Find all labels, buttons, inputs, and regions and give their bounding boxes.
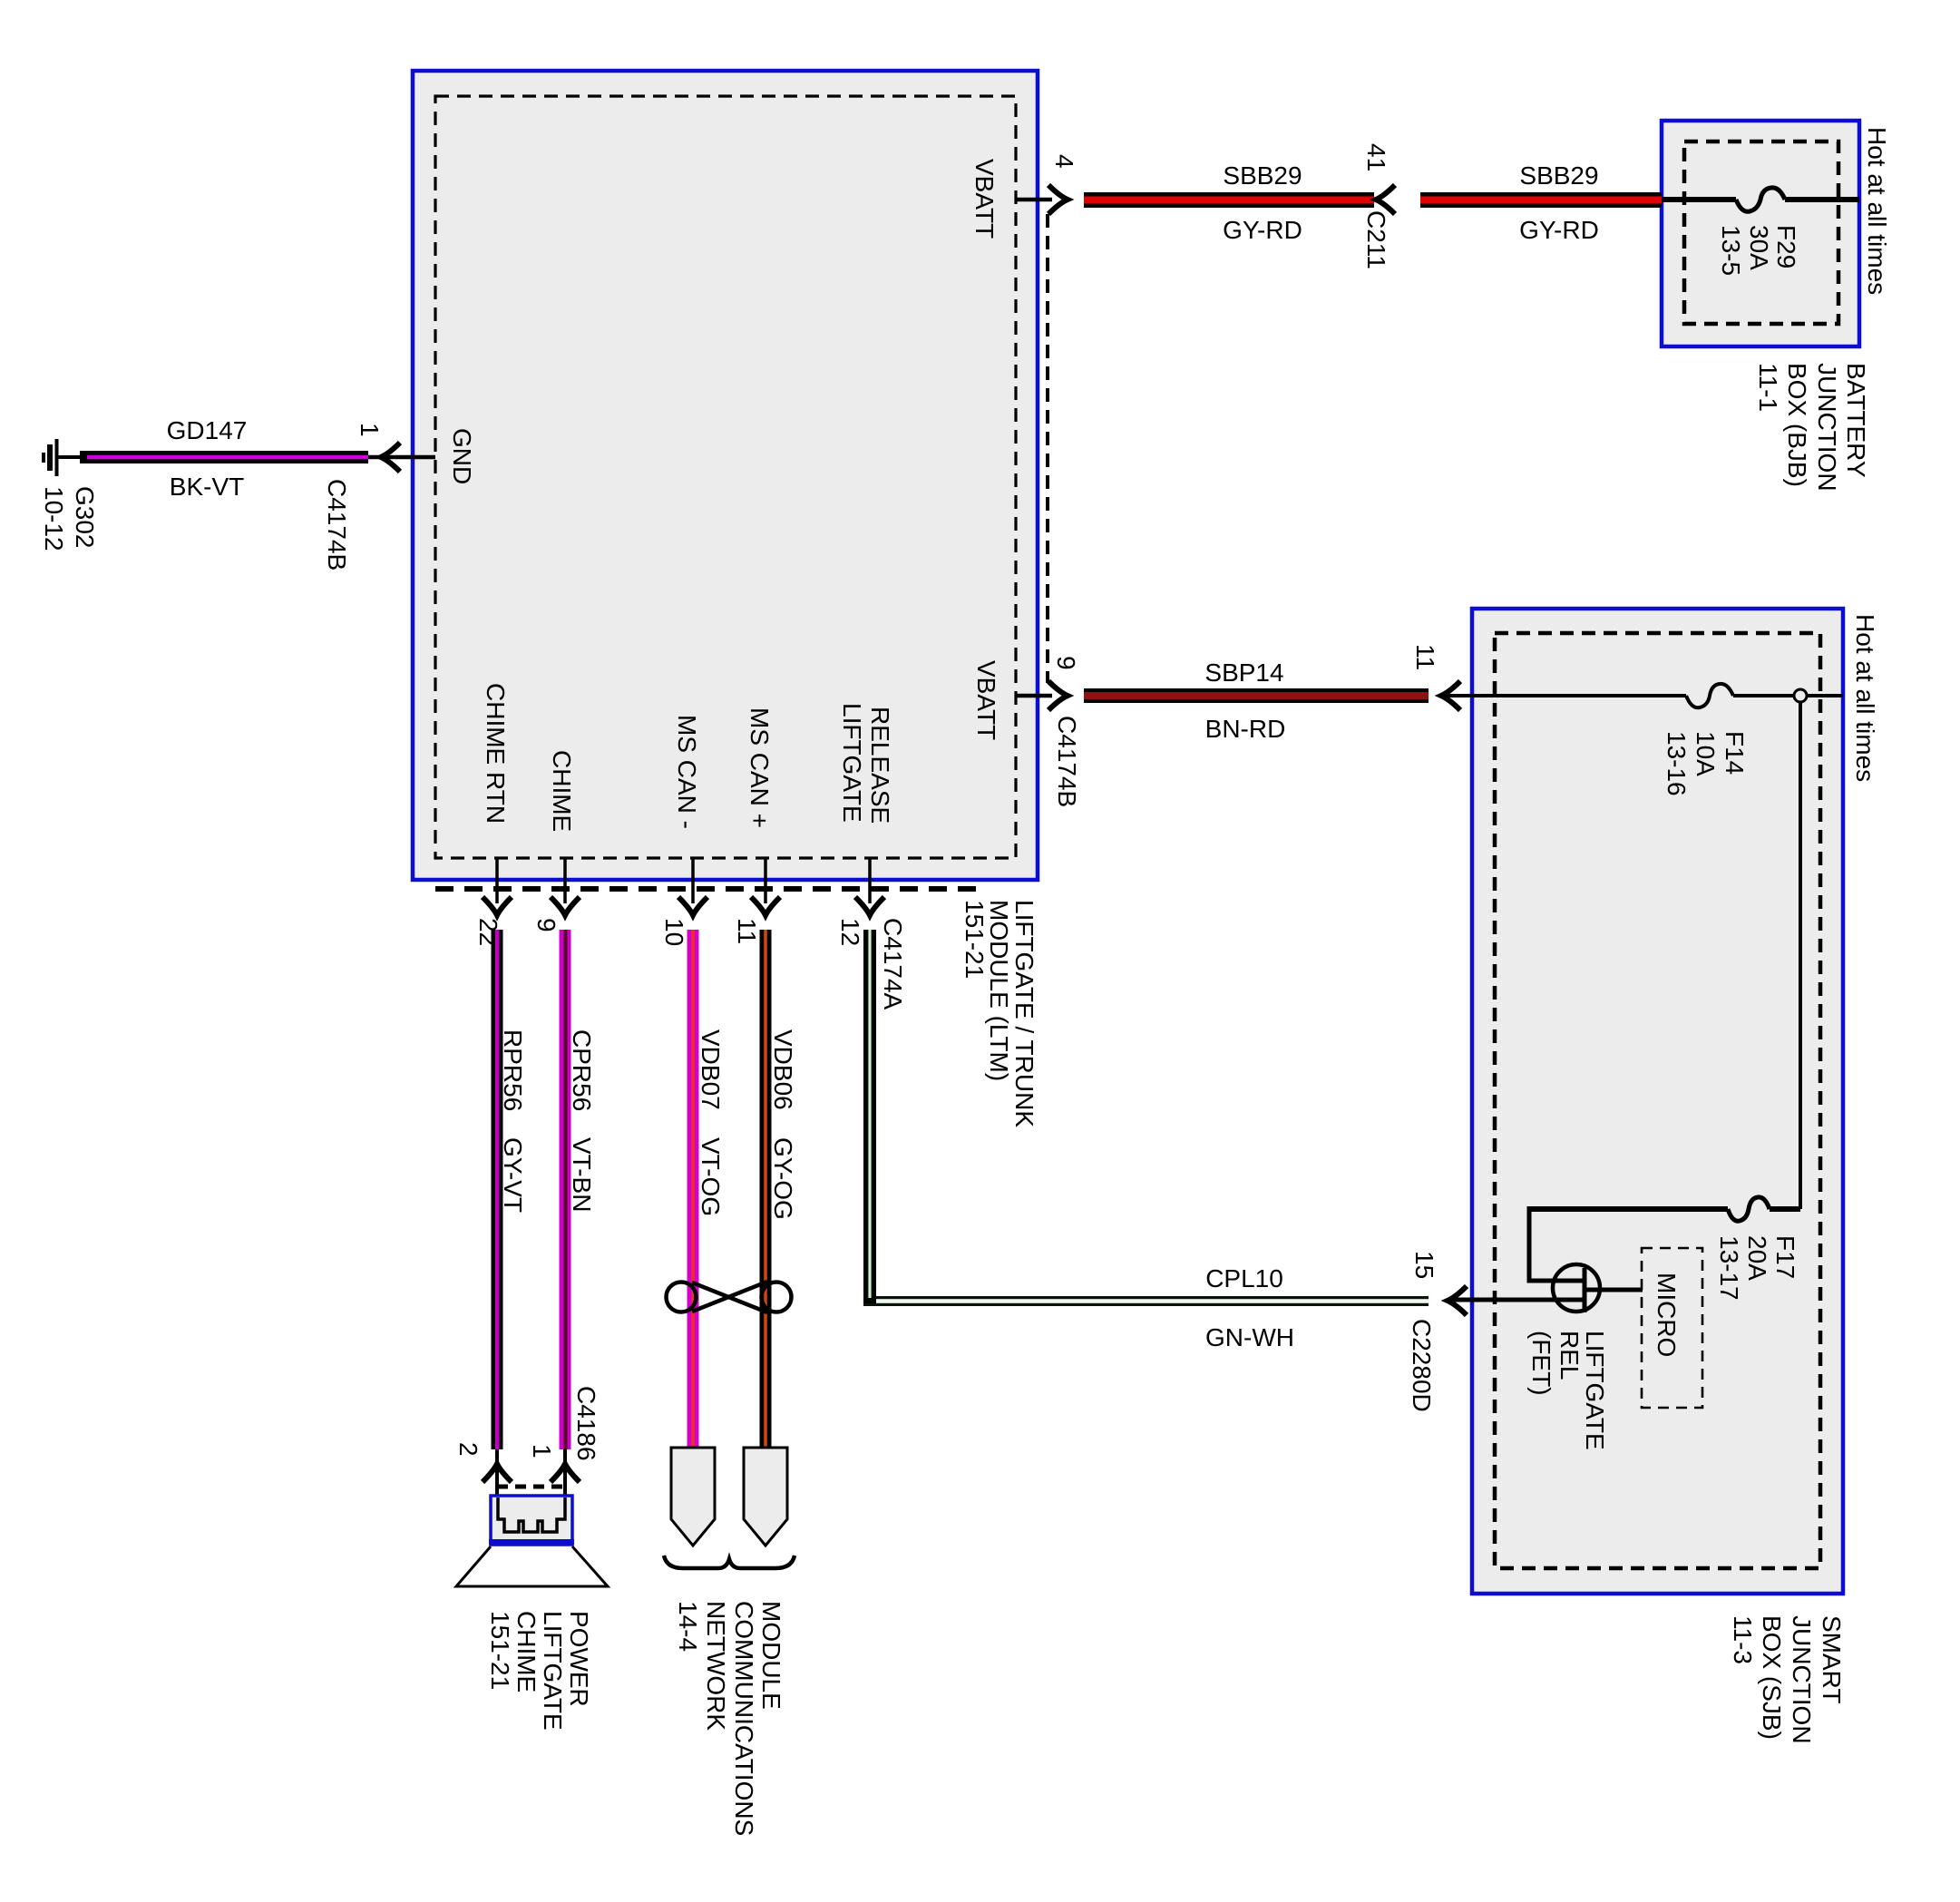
svg-text:1: 1 (356, 423, 384, 437)
pin stub LIFTGATE RELEASE (868, 858, 872, 903)
arrow at VBATT pin 9 (points right) (1048, 681, 1068, 710)
svg-text:CHIME RTN: CHIME RTN (482, 683, 510, 824)
pin label LIFTGATE RELEASE (838, 703, 894, 824)
svg-text:F17: F17 (1771, 1235, 1799, 1279)
svg-text:RELEASE: RELEASE (866, 707, 894, 824)
fuse F14 10A (1686, 684, 1733, 707)
wire CPL10 vertical (black/green) (863, 930, 876, 1303)
svg-text:GD147: GD147 (167, 416, 248, 444)
svg-text:F29: F29 (1772, 225, 1800, 268)
wire GD147 BK-VT (black/violet) (80, 451, 368, 463)
SJB inner dashed boundary (1495, 633, 1820, 1568)
svg-text:11: 11 (733, 918, 761, 944)
MICRO dashed box (1642, 1248, 1702, 1408)
SJB internal feed line (1444, 694, 1686, 697)
wire SBP14 BN-RD (1084, 688, 1429, 703)
svg-text:RPR56: RPR56 (499, 1029, 527, 1111)
svg-text:MS CAN +: MS CAN + (746, 707, 774, 828)
svg-text:C4174A: C4174A (879, 918, 907, 1010)
fuse label F14 10A 13-16 (1663, 731, 1749, 796)
svg-text:151-21: 151-21 (960, 900, 989, 979)
svg-text:11-1: 11-1 (1754, 363, 1782, 412)
svg-text:GY-RD: GY-RD (1519, 216, 1599, 244)
svg-text:JUNCTION: JUNCTION (1813, 363, 1841, 492)
chime wire tails (495, 1449, 499, 1520)
pin stub CHIME (563, 858, 567, 903)
wire SBB29 GY-RD segment 1 (1084, 192, 1374, 208)
arrow at C211 (points left) (1376, 185, 1395, 214)
chime label POWER LIFTGATE CHIME 151-21 (486, 1611, 593, 1731)
svg-text:CHIME: CHIME (548, 750, 576, 832)
wire VDB06 GY-OG vertical (760, 930, 772, 1448)
svg-text:CHIME: CHIME (512, 1611, 541, 1692)
svg-text:41: 41 (1362, 143, 1390, 171)
fuse F17 20A (1728, 1197, 1770, 1221)
brace under pentagons (664, 1556, 795, 1568)
BJB line from fuse to edge (1785, 197, 1859, 202)
svg-text:VT-BN: VT-BN (568, 1137, 596, 1212)
svg-text:VT-OG: VT-OG (697, 1137, 725, 1216)
svg-text:BN-RD: BN-RD (1205, 715, 1286, 743)
svg-text:COMMUNICATIONS: COMMUNICATIONS (730, 1601, 758, 1836)
svg-text:151-21: 151-21 (486, 1611, 514, 1690)
svg-text:NETWORK: NETWORK (702, 1601, 730, 1731)
F17 link to vertical (1770, 1206, 1800, 1212)
arrow pin 10 (points down) (678, 897, 707, 915)
off-page connector pentagon (MS CAN -) (671, 1448, 715, 1546)
BJB internal feed line (1662, 197, 1736, 202)
svg-text:30A: 30A (1745, 225, 1773, 270)
svg-text:C4174B: C4174B (323, 479, 351, 571)
VBATT pin 9 stub (1016, 694, 1052, 698)
svg-text:LIFTGATE: LIFTGATE (1581, 1331, 1609, 1450)
svg-text:VBATT: VBATT (972, 660, 1000, 740)
arrow pin 9 (points down) (551, 897, 580, 915)
svg-text:VDB07: VDB07 (697, 1029, 725, 1110)
svg-text:13-5: 13-5 (1717, 225, 1745, 276)
svg-text:Hot at all times: Hot at all times (1851, 614, 1879, 782)
arrow at GND pin (points left) (381, 443, 400, 472)
wire VDB07 VT-OG vertical (687, 930, 699, 1448)
FET driver circle LIFTGATE REL (1553, 1264, 1600, 1312)
svg-text:4: 4 (1050, 154, 1078, 169)
svg-text:GND: GND (448, 428, 476, 484)
box label SMART JUNCTION BOX (SJB) 11-3 (1729, 1615, 1846, 1744)
svg-text:2: 2 (454, 1442, 483, 1457)
junction node (1794, 689, 1807, 702)
svg-text:SBB29: SBB29 (1223, 161, 1302, 190)
svg-text:10A: 10A (1692, 731, 1720, 776)
arrow at VBATT pin 4 (points right) (1048, 185, 1068, 214)
svg-text:GY-RD: GY-RD (1223, 216, 1302, 244)
arrow pin 22 (points down) (483, 897, 512, 915)
fuse label F29 30A 13-5 (1717, 225, 1800, 276)
arrow at SJB pin 15 (points left) (1448, 1286, 1467, 1315)
pin stub MS CAN + (764, 858, 767, 903)
svg-text:LIFTGATE: LIFTGATE (838, 703, 866, 823)
fuse F29 30A (1736, 188, 1785, 211)
svg-text:GY-OG: GY-OG (769, 1137, 797, 1220)
arrow chime pin 1 (points up) (551, 1464, 580, 1482)
FET label LIFTGATE REL (FET) (1527, 1331, 1609, 1450)
arrow at SJB pin 11 (points left) (1441, 681, 1460, 710)
dashed link between VBATT pins (1046, 214, 1049, 683)
svg-text:10-12: 10-12 (40, 486, 68, 551)
ground label G302 10-12 (40, 486, 99, 551)
svg-text:MS CAN -: MS CAN - (673, 715, 701, 829)
svg-text:BATTERY: BATTERY (1842, 363, 1870, 478)
svg-text:12: 12 (836, 918, 864, 946)
svg-text:MODULE: MODULE (757, 1601, 785, 1710)
VBATT pin 4 stub (1016, 198, 1052, 202)
svg-text:CPL10: CPL10 (1205, 1264, 1283, 1292)
svg-text:GN-WH: GN-WH (1205, 1323, 1294, 1351)
smart junction box SJB (1472, 609, 1843, 1594)
battery junction box BJB (1662, 121, 1859, 346)
svg-text:Hot at all times: Hot at all times (1863, 127, 1891, 295)
off-page connector pentagon (MS CAN +) (744, 1448, 787, 1546)
pin stub MS CAN - (691, 858, 695, 903)
wire CPR56 VT-BN vertical (560, 930, 571, 1449)
svg-text:20A: 20A (1743, 1235, 1771, 1281)
svg-text:(FET): (FET) (1527, 1331, 1555, 1396)
svg-text:9: 9 (1052, 656, 1080, 670)
svg-text:11-3: 11-3 (1729, 1615, 1757, 1664)
svg-text:SMART: SMART (1818, 1615, 1846, 1704)
svg-text:1: 1 (528, 1444, 556, 1458)
svg-text:LIFTGATE / TRUNK: LIFTGATE / TRUNK (1010, 900, 1039, 1127)
svg-text:CPR56: CPR56 (568, 1029, 596, 1111)
module label LIFTGATE / TRUNK MODULE (LTM) 151-21 (960, 900, 1039, 1127)
SJB vertical feed to F17 (1799, 702, 1802, 1209)
F17 horizontal run (1528, 1206, 1728, 1212)
FET to MICRO control line (1585, 1288, 1643, 1292)
svg-text:15: 15 (1410, 1251, 1438, 1279)
arrow pin 12 (points down) (855, 897, 884, 915)
SJB line fuse to node (1733, 694, 1843, 697)
fuse label F17 20A 13-17 (1715, 1235, 1799, 1301)
svg-text:13-17: 13-17 (1715, 1235, 1743, 1301)
chime box (491, 1496, 572, 1545)
svg-text:C2280D: C2280D (1408, 1319, 1436, 1412)
svg-text:13-16: 13-16 (1663, 731, 1691, 796)
svg-text:BOX (SJB): BOX (SJB) (1758, 1615, 1786, 1740)
wire CPL10 GN-WH horizontal (863, 1296, 1429, 1306)
ground G302 symbol (44, 439, 82, 476)
svg-text:C211: C211 (1362, 210, 1390, 269)
LTM inner dashed connector boundary (435, 96, 1016, 858)
box label BATTERY JUNCTION BOX (BJB) 11-1 (1754, 363, 1870, 492)
svg-text:REL: REL (1555, 1331, 1584, 1380)
svg-text:G302: G302 (71, 486, 99, 549)
svg-text:F14: F14 (1721, 731, 1749, 775)
chime coil (498, 1497, 565, 1532)
svg-text:C4174B: C4174B (1053, 716, 1081, 807)
twisted pair symbol (667, 1282, 792, 1312)
FET gate bar (1583, 1268, 1587, 1312)
pin stub CHIME RTN (495, 858, 499, 903)
wire RPR56 GY-VT vertical (492, 930, 503, 1449)
module LTM box (413, 71, 1038, 880)
BJB inner dashed boundary (1684, 141, 1838, 324)
network label MODULE COMMUNICATIONS NETWORK 14-4 (674, 1601, 785, 1836)
svg-text:GY-VT: GY-VT (499, 1137, 527, 1213)
svg-text:C4186: C4186 (572, 1386, 600, 1461)
svg-text:SBP14: SBP14 (1204, 658, 1283, 687)
svg-text:9: 9 (532, 918, 561, 932)
chime horn trapezoid (456, 1546, 608, 1586)
svg-text:14-4: 14-4 (674, 1601, 702, 1652)
F17 drop to FET (1527, 1206, 1532, 1281)
svg-text:BK-VT: BK-VT (170, 473, 244, 501)
svg-text:POWER: POWER (565, 1611, 593, 1707)
svg-text:VBATT: VBATT (970, 159, 999, 239)
arrow pin 11 (points down) (751, 897, 780, 915)
svg-text:VDB06: VDB06 (769, 1029, 797, 1110)
liftgate release FET output wire inside SJB (1448, 1298, 1584, 1302)
arrow chime pin 2 (points up) (483, 1464, 512, 1482)
svg-text:10: 10 (660, 918, 688, 946)
svg-text:JUNCTION: JUNCTION (1788, 1615, 1816, 1744)
wire SBB29 GY-RD segment 2 (1420, 192, 1662, 208)
svg-text:SBB29: SBB29 (1519, 161, 1598, 190)
svg-text:LIFTGATE: LIFTGATE (539, 1611, 567, 1731)
svg-text:MICRO: MICRO (1653, 1273, 1681, 1357)
connector C4186 dashed line (497, 1485, 568, 1489)
GND pin stub (368, 455, 435, 460)
LTM bottom connector dashed line C4174A (435, 886, 984, 892)
F17 feed into FET (1527, 1279, 1585, 1283)
svg-text:BOX (BJB): BOX (BJB) (1783, 363, 1811, 487)
svg-text:11: 11 (1411, 644, 1439, 670)
